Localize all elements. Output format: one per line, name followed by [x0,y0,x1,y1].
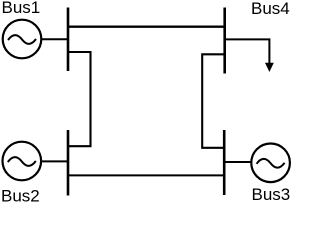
wire G1 to Bus1 [42,38,69,40]
busbar Bus1 [67,8,70,72]
wire line Bus4-Bus3 [202,54,225,148]
busbar Bus3 [223,130,226,195]
wire line Bus1-Bus4 [68,26,225,28]
busbar Bus2 [67,130,70,196]
svg-text:Bus1: Bus1 [2,0,41,17]
svg-text:Bus3: Bus3 [252,185,291,204]
load arrowhead at Bus4 [265,63,274,72]
generator G2 at Bus2 [3,142,42,181]
wire line Bus1-Bus2 [68,52,91,146]
wire G2 to Bus2 [42,160,69,162]
wire G3 to Bus3 [224,161,251,163]
wire load at Bus4 [225,39,270,63]
generator G3 at Bus3 [251,144,290,183]
svg-text:Bus2: Bus2 [1,186,40,205]
busbar Bus4 [223,8,226,74]
wire line Bus2-Bus3 [68,174,224,176]
generator G1 at Bus1 [3,20,42,59]
svg-text:Bus4: Bus4 [251,0,290,18]
